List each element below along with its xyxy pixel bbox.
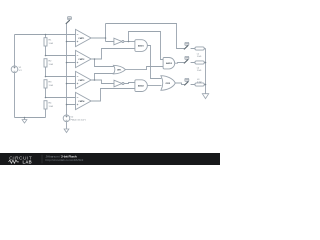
svg-text:5 V: 5 V [19, 70, 23, 72]
svg-text:AND2: AND2 [138, 84, 145, 87]
svg-text:1 kΩ: 1 kΩ [49, 85, 54, 87]
svg-text:1 kΩ: 1 kΩ [197, 82, 202, 84]
svg-text:1 kΩ: 1 kΩ [49, 43, 54, 45]
svg-text:CMP1: CMP1 [78, 38, 85, 40]
svg-text:PWL(0 0 5m 5) 0 V: PWL(0 0 5m 5) 0 V [71, 119, 87, 121]
svg-text:1 kΩ: 1 kΩ [197, 56, 202, 58]
svg-text:CMP4: CMP4 [78, 100, 85, 103]
svg-text:CMP3: CMP3 [78, 80, 85, 82]
svg-text:1 kΩ: 1 kΩ [49, 106, 54, 108]
svg-text:1 kΩ: 1 kΩ [197, 70, 202, 72]
svg-text:AND1: AND1 [138, 44, 145, 47]
svg-text:OR2: OR2 [166, 83, 171, 85]
svg-text:CMP2: CMP2 [78, 59, 85, 61]
svg-text:AND3: AND3 [166, 62, 173, 65]
svg-text:OR1: OR1 [117, 69, 122, 71]
svg-text:http://circuitlab.com/c48v5k3: http://circuitlab.com/c48v5k3 [46, 158, 84, 162]
svg-text:LAB: LAB [23, 160, 33, 165]
svg-text:1 kΩ: 1 kΩ [49, 64, 54, 66]
